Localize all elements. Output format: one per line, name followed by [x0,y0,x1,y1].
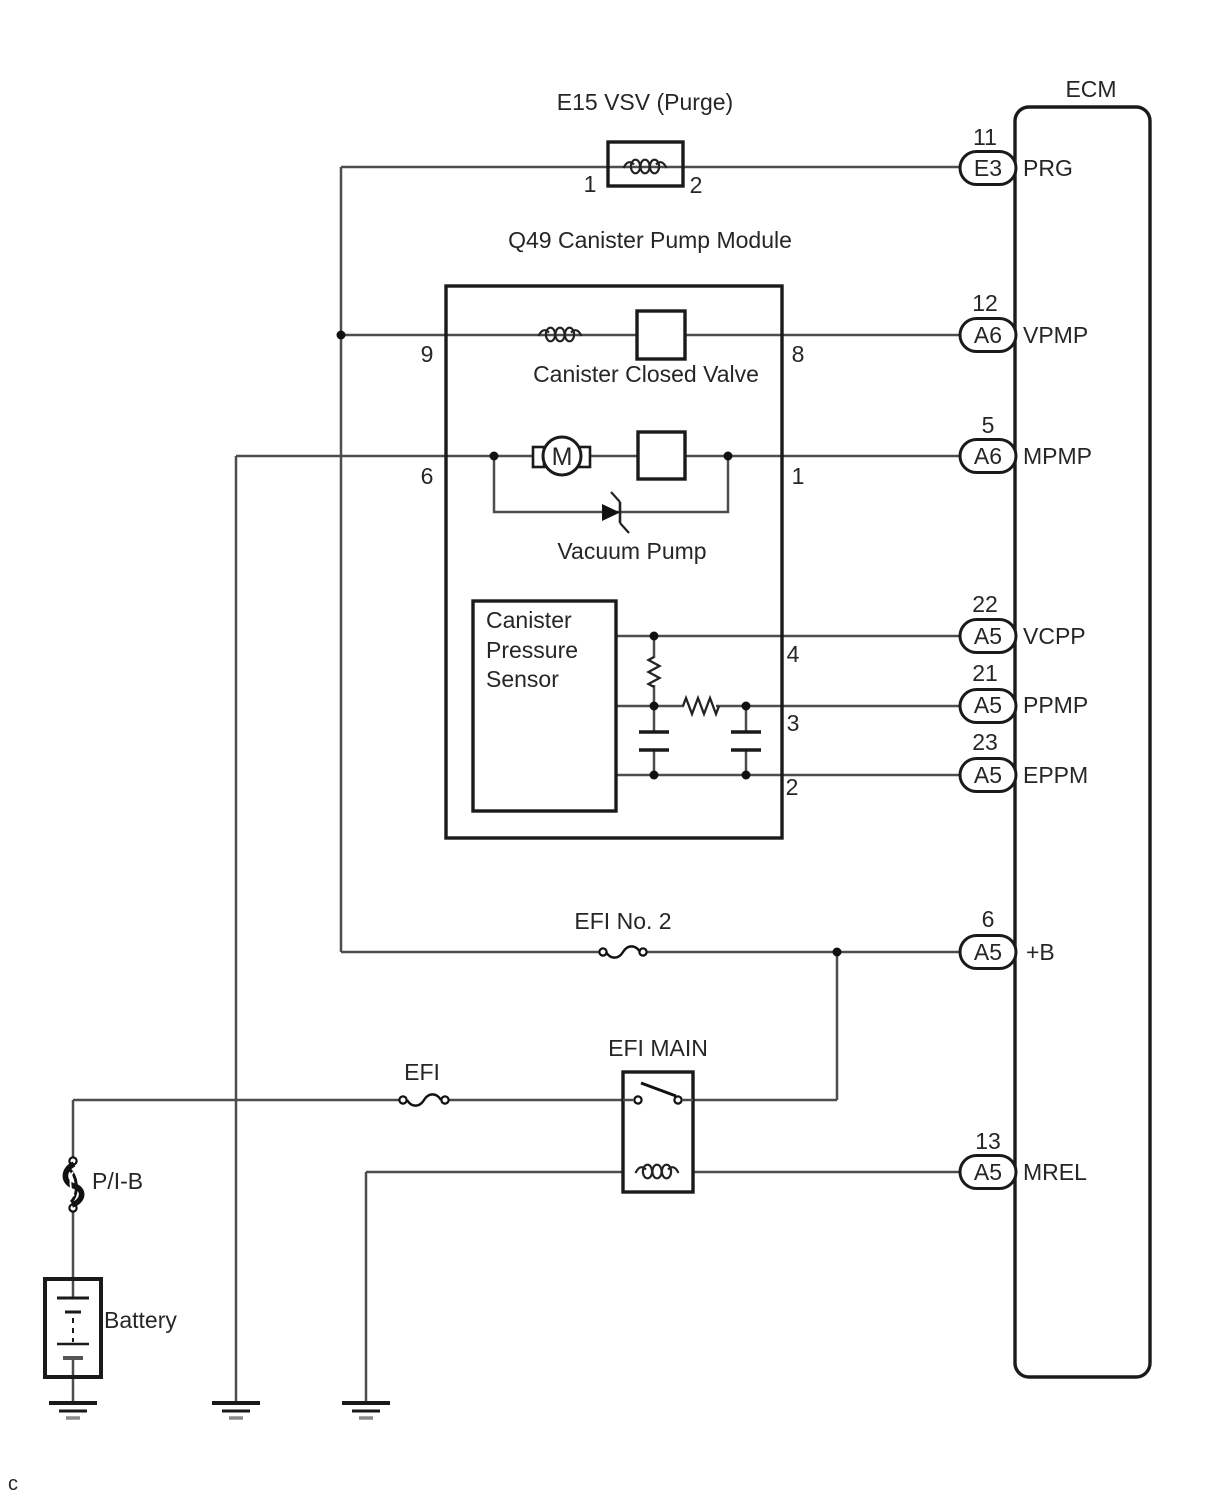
wire stub above resistor R1 [653,636,656,658]
svg-text:P/I-B: P/I-B [92,1168,143,1194]
wire stub below capacitor C1 [653,751,656,775]
svg-text:A6: A6 [974,322,1002,348]
svg-text:8: 8 [792,341,805,367]
svg-text:6: 6 [982,906,995,932]
svg-text:Canister Closed Valve: Canister Closed Valve [533,361,759,387]
svg-text:M: M [552,443,573,471]
wire MREL row right segment to ECM A5 [693,1171,960,1174]
wire P/I-B link to battery [72,1211,75,1297]
connector oval E3 (PRG) [960,152,1016,185]
canister pressure sensor box [473,601,616,811]
wire VCPP row (pin 4) [616,635,960,638]
svg-text:1: 1 [792,463,805,489]
connector oval A6 (MPMP) [960,440,1016,473]
fusible link P/I-B [65,1157,81,1211]
connector oval A5 (EPPM) [960,759,1016,792]
vacuum pump switch box [638,432,685,479]
svg-text:+B: +B [1026,939,1055,965]
svg-text:EFI MAIN: EFI MAIN [608,1035,708,1061]
svg-text:Canister: Canister [486,607,572,633]
ECM box [1015,107,1150,1377]
svg-text:Battery: Battery [104,1307,177,1333]
connector oval A6 (VPMP) [960,319,1016,352]
fuse EFI No. 2 [599,946,646,957]
battery plate long lower [57,1343,89,1346]
ground (vacuum pump return) [212,1403,260,1418]
svg-text:EPPM: EPPM [1023,762,1088,788]
battery plate long top [57,1297,89,1300]
svg-text:A5: A5 [974,939,1002,965]
svg-text:MREL: MREL [1023,1159,1087,1185]
VSV E15 solenoid coil [624,160,667,174]
junction EPPM row at C2 [742,771,751,780]
svg-text:A5: A5 [974,623,1002,649]
svg-text:6: 6 [421,463,434,489]
junction PPMP row at C2 [742,702,751,711]
connector oval A5 (+B) [960,936,1016,969]
svg-text:Q49 Canister Pump Module: Q49 Canister Pump Module [508,227,792,253]
junction VCPP row at R1 [650,632,659,641]
wire stub above capacitor C2 [745,706,748,731]
junction motor row right [724,452,733,461]
svg-text:A5: A5 [974,1159,1002,1185]
svg-text:A5: A5 [974,692,1002,718]
wire EPPM row (pin 2) [616,774,960,777]
wire vertical down to P/I-B link [72,1100,75,1158]
Q49 canister pump module box [446,286,782,838]
motor M brush left [533,447,544,467]
wire MREL coil row inside relay [623,1171,693,1174]
wire relay switch stub left [623,1099,635,1102]
wire PPMP row right segment [716,705,960,708]
svg-text:Sensor: Sensor [486,666,559,692]
wire VPMP row (pin 9) [341,334,960,337]
canister closed valve coil [539,328,582,342]
connector oval A5 (VCPP) [960,620,1016,653]
canister closed valve box [637,311,685,359]
wire PRG row from ECM E3 to left vertical [341,166,960,169]
connector oval A5 (PPMP) [960,690,1016,723]
junction PPMP row at R1/C1 [650,702,659,711]
svg-text:5: 5 [982,412,995,438]
motor M brush right [579,447,590,467]
junction +B row to relay [833,948,842,957]
wire +B row right of EFI No.2 fuse [646,951,960,954]
svg-text:EFI No. 2: EFI No. 2 [574,908,671,934]
svg-text:PPMP: PPMP [1023,692,1088,718]
svg-text:VCPP: VCPP [1023,623,1086,649]
motor M body [543,437,581,475]
junction motor row left [490,452,499,461]
svg-text:MPMP: MPMP [1023,443,1092,469]
wire MPMP row (pin 6 / pin 1) [236,455,960,458]
capacitor C1 [639,732,669,750]
svg-text:E3: E3 [974,155,1002,181]
svg-text:1: 1 [584,171,597,197]
wire left vertical bus x=341 [340,167,343,952]
svg-text:9: 9 [421,341,434,367]
svg-text:11: 11 [973,124,997,150]
capacitor C2 [731,732,761,750]
battery box [45,1279,101,1377]
ground (battery) [49,1403,97,1418]
wire stub below resistor R1 [653,685,656,706]
svg-text:PRG: PRG [1023,155,1073,181]
fuse EFI [399,1094,448,1105]
svg-text:Pressure: Pressure [486,637,578,663]
battery cell dashed link [72,1318,74,1342]
svg-text:EFI: EFI [404,1059,440,1085]
battery plate short [65,1311,81,1314]
svg-text:2: 2 [786,774,799,800]
battery plate short bottom [63,1356,83,1360]
wire stub above capacitor C1 [653,706,656,731]
VSV E15 box [608,142,683,186]
wire EFI fuse row right segment [449,1099,623,1102]
junction EPPM row at C1 [650,771,659,780]
wire relay switch row right segment [693,1099,837,1102]
relay EFI MAIN box [623,1072,693,1192]
svg-text:3: 3 [787,710,800,736]
ground (relay coil return) [342,1403,390,1418]
svg-text:23: 23 [972,729,998,755]
svg-text:ECM: ECM [1065,76,1116,102]
svg-text:E15 VSV (Purge): E15 VSV (Purge) [557,89,733,115]
svg-text:Vacuum Pump: Vacuum Pump [557,538,706,564]
wire vertical to middle ground x=236 [235,456,238,1402]
wire MREL row left segment [366,1171,623,1174]
svg-text:4: 4 [787,641,800,667]
junction left bus / VPMP row [337,331,346,340]
wire vacuum pump bypass loop [494,456,728,512]
resistor R2 (horizontal) [683,698,719,714]
relay switch contacts and blade [623,1083,693,1104]
connector oval A5 (MREL) [960,1156,1016,1189]
svg-text:12: 12 [972,290,998,316]
resistor R1 (vertical) [649,657,660,687]
svg-text:c: c [8,1473,18,1495]
svg-text:13: 13 [975,1128,1001,1154]
wire +B row left of EFI No.2 fuse [341,951,600,954]
wire EFI fuse row left segment [73,1099,399,1102]
svg-text:21: 21 [972,660,998,686]
wire battery negative to ground [72,1358,75,1402]
svg-text:2: 2 [690,172,703,198]
wire relay switch stub right [681,1099,693,1102]
wire vertical from +B junction to relay switch [836,952,839,1100]
wire vertical to right ground x=366 [365,1172,368,1402]
svg-text:VPMP: VPMP [1023,322,1088,348]
svg-text:22: 22 [972,591,998,617]
relay coil [636,1165,679,1179]
svg-text:A5: A5 [974,762,1002,788]
wire stub below capacitor C2 [745,751,748,775]
diode D1 (zener, bypass) [602,492,629,533]
svg-text:A6: A6 [974,443,1002,469]
wire PPMP row left segment (pin 3) [616,705,684,708]
